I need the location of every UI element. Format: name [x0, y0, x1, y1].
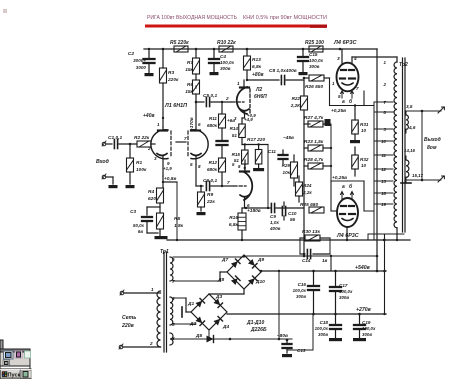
svg-text:+1,9: +1,9: [163, 166, 172, 171]
junction dot rail/C15: [302, 48, 305, 51]
ground below C4: [210, 72, 219, 75]
svg-text:+540в: +540в: [355, 265, 370, 271]
svg-text:6,8к: 6,8к: [252, 64, 262, 70]
wire R4-R5b: [159, 203, 161, 213]
svg-text:Пуск: Пуск: [8, 372, 21, 378]
svg-text:R10 22к: R10 22к: [217, 40, 236, 46]
wire R7-R6: [195, 74, 197, 80]
resistor R28: [308, 163, 323, 169]
label Д9: [257, 257, 264, 263]
svg-text:1,8к: 1,8к: [174, 223, 184, 229]
svg-text:400в: 400в: [269, 226, 281, 231]
label node +1,9: [163, 166, 172, 171]
wire R16: [241, 208, 243, 240]
svg-text:б: б: [349, 98, 353, 105]
svg-text:R15: R15: [232, 152, 241, 157]
wire common line: [167, 239, 410, 241]
svg-text:3: 3: [384, 127, 387, 132]
label +0,25в V5: [332, 175, 347, 181]
label node +0,9: [247, 113, 256, 118]
svg-text:С10: С10: [288, 211, 297, 216]
svg-text:С8 1,0х400в: С8 1,0х400в: [269, 68, 297, 74]
label а V5: [342, 183, 353, 190]
wire V1b cathode to C6: [196, 164, 203, 186]
terminal bar bridge B: [181, 307, 183, 317]
capacitor C10: [282, 202, 285, 220]
svg-text:7: 7: [384, 100, 387, 105]
wire x384 riser: [383, 234, 386, 315]
wire anode bus +170в: [195, 94, 198, 128]
wire +540 rail: [260, 270, 386, 273]
svg-text:3: 3: [337, 56, 340, 62]
wire sec7 to bridge A: [173, 272, 227, 281]
svg-text:14,16: 14,16: [404, 148, 416, 153]
label 2: [149, 341, 153, 346]
label R1 100к: [136, 160, 147, 173]
svg-text:300в: 300в: [220, 66, 231, 71]
label C4 100,0х300в: [220, 54, 234, 71]
capacitor C15: [298, 49, 308, 72]
terminal block (black): [325, 119, 331, 126]
svg-text:R4: R4: [148, 189, 154, 195]
wire R30 stubs: [300, 238, 330, 254]
resistor R22: [301, 96, 308, 110]
svg-text:3: 3: [234, 116, 237, 121]
tube V2 grid (dashed): [232, 101, 244, 103]
label Д1: [187, 301, 194, 307]
wire V5 bottom: [346, 227, 348, 240]
ground below R1: [126, 185, 135, 188]
label Выход 8ом: [424, 137, 441, 151]
tube V3 plate bar: [240, 170, 249, 172]
wire R15 to V3 plate: [244, 164, 246, 171]
label C8 1,0х400в: [269, 68, 297, 74]
svg-text:1в: 1в: [322, 258, 328, 263]
resistor R5: [174, 46, 188, 52]
label 6: [172, 257, 175, 262]
svg-text:15к: 15к: [185, 89, 193, 95]
svg-text:С14: С14: [302, 258, 311, 263]
label C3 50,0х6в: [130, 209, 144, 234]
tube V5 envelope: [337, 198, 358, 227]
svg-text:Л2: Л2: [255, 87, 262, 93]
junction dot input node: [129, 143, 132, 146]
wire V1b anode to C5: [195, 86, 197, 88]
resistor R23: [308, 145, 323, 151]
svg-text:а: а: [342, 99, 345, 105]
label R32 10: [360, 157, 369, 168]
label R7 15к: [185, 60, 193, 73]
svg-text:300в: 300в: [296, 294, 306, 299]
label node +80в: [252, 72, 264, 78]
wire V3 cathode down: [242, 198, 245, 208]
svg-text:Вход: Вход: [96, 159, 110, 165]
wire R11: [221, 101, 223, 141]
resistor R10: [219, 46, 233, 52]
label 8: [172, 336, 175, 341]
triode V1a grid (dashed): [170, 131, 172, 158]
wire PSU bottom link: [288, 314, 313, 350]
pin 6 label V3: [247, 203, 250, 208]
svg-text:12: 12: [381, 167, 386, 172]
label C6 0,1: [203, 178, 217, 184]
svg-text:2: 2: [225, 96, 229, 101]
diode D2: [195, 316, 204, 325]
ground below C18: [329, 338, 342, 341]
label node +6в: [227, 118, 235, 123]
capacitor C9: [271, 204, 274, 213]
resistor R11: [219, 114, 226, 128]
svg-text:+0,25в: +0,25в: [331, 108, 346, 114]
pin 7 label V3: [227, 180, 230, 185]
svg-text:19: 19: [381, 202, 386, 207]
label 4,6: [408, 125, 416, 130]
OPT primary coil: [394, 62, 397, 228]
svg-text:6: 6: [172, 257, 175, 262]
label R26 550: [305, 84, 323, 90]
svg-text:680к: 680к: [207, 123, 218, 128]
wire PSU top rail: [244, 255, 377, 258]
resistor R9: [198, 192, 205, 207]
svg-text:R14: R14: [230, 126, 239, 131]
tube V2 envelope: [237, 87, 247, 114]
label 3,5: [406, 104, 413, 109]
wire input-C1: [106, 143, 112, 145]
svg-text:1: 1: [157, 122, 160, 127]
wire R14-R15-R17 node: [242, 138, 269, 210]
pin 2 label V1a: [147, 146, 151, 151]
grid loop V4: [330, 78, 365, 106]
wire C1-R2: [119, 143, 137, 145]
svg-text:б: б: [349, 183, 353, 190]
PT core: [164, 252, 167, 352]
svg-text:+270в: +270в: [356, 307, 371, 313]
svg-text:7: 7: [227, 180, 230, 185]
pin 7 label V1b: [184, 136, 187, 141]
svg-text:100,0х: 100,0х: [339, 289, 353, 294]
PT primary coil: [157, 291, 161, 347]
wire R23 stub: [304, 147, 331, 149]
wire R29: [293, 155, 295, 186]
svg-text:13: 13: [381, 179, 386, 184]
svg-text:С1 0,1: С1 0,1: [108, 135, 122, 141]
pin 8 label V1b: [198, 164, 201, 169]
capacitor C8: [281, 76, 284, 85]
svg-text:Д8: Д8: [217, 277, 224, 283]
svg-text:11: 11: [381, 153, 386, 158]
label C14 1в: [302, 258, 328, 263]
diode D10: [248, 276, 257, 285]
svg-text:22к: 22к: [206, 199, 215, 205]
resistor R13: [244, 56, 251, 70]
label R16 6,8к: [229, 215, 239, 228]
pin 2 label V2: [225, 96, 229, 101]
svg-text:R28 4,7к: R28 4,7к: [304, 157, 324, 163]
svg-text:4,6: 4,6: [408, 125, 416, 130]
label -80в: [277, 333, 288, 339]
svg-text:R23 1,5к: R23 1,5к: [304, 139, 324, 145]
mains terminal 1: [120, 290, 124, 295]
svg-text:3000+: 3000+: [133, 58, 146, 63]
svg-text:R27 4,7к: R27 4,7к: [304, 115, 324, 121]
label R12 680к: [207, 160, 218, 172]
OPT taps stubs: [374, 102, 393, 204]
wire C8 line: [247, 79, 279, 81]
svg-text:R7: R7: [187, 60, 193, 66]
wire bridge A bottom: [209, 289, 244, 294]
svg-text:1: 1: [151, 287, 154, 292]
wire R5b-ground: [159, 229, 161, 236]
label C17 100,0х300в: [339, 283, 353, 300]
diode D1: [195, 298, 204, 307]
svg-text:300в: 300в: [339, 295, 349, 300]
bridge B outline: [191, 294, 227, 330]
wire V1b grid input: [176, 141, 186, 143]
label C13: [297, 348, 306, 353]
svg-text:R22: R22: [292, 96, 301, 101]
wire R3 branch: [162, 49, 164, 127]
wire output bottom: [406, 179, 441, 182]
label +170в: [189, 117, 195, 131]
resistor R3: [160, 68, 167, 83]
junction dot rail/C4: [213, 48, 216, 51]
capacitor C1: [114, 140, 117, 149]
capacitor C14: [300, 250, 330, 259]
tube V5 electrodes: [340, 206, 355, 221]
label R11 680к: [207, 116, 218, 128]
tube V3 cathode hook: [240, 195, 249, 197]
tube V3 envelope: [244, 172, 252, 200]
label C11: [268, 149, 277, 154]
svg-text:С5 0,1: С5 0,1: [203, 93, 217, 99]
grid loop V5: [331, 181, 364, 211]
svg-text:R6: R6: [187, 82, 193, 88]
wire sec4 to bridge B: [173, 298, 191, 312]
label R29 10к: [282, 163, 291, 175]
svg-text:56: 56: [290, 217, 296, 222]
svg-text:1: 1: [384, 60, 387, 65]
svg-text:18: 18: [381, 191, 386, 196]
resistor R27: [308, 121, 323, 127]
red underline bar: [145, 25, 327, 28]
bridge A outline: [227, 255, 261, 289]
wire R27 stub: [304, 123, 325, 125]
wire OPT bus: [373, 102, 375, 240]
output terminal top: [438, 107, 444, 113]
junction dot rail/R13: [246, 48, 249, 51]
svg-text:300в: 300в: [362, 332, 372, 337]
label tube V4 type: [333, 40, 357, 46]
wire output link: [421, 111, 423, 180]
svg-text:+170в: +170в: [189, 117, 195, 131]
wire R9: [200, 186, 202, 211]
wire output top: [406, 110, 441, 113]
diode D7: [231, 259, 240, 268]
triode V1a anode lead: [158, 127, 167, 131]
resistor R25: [309, 46, 323, 52]
svg-text:Выход: Выход: [424, 137, 441, 143]
svg-text:51: 51: [232, 133, 238, 138]
svg-text:+0,25в: +0,25в: [332, 175, 347, 181]
tube V4 envelope: [337, 63, 359, 92]
svg-text:Д5: Д5: [195, 333, 202, 339]
svg-text:+0,8в: +0,8в: [164, 176, 176, 182]
svg-text:220к: 220к: [167, 77, 179, 83]
svg-text:R1: R1: [136, 160, 142, 166]
svg-text:–45в: –45в: [283, 135, 294, 141]
junction dot R16 top: [245, 207, 247, 209]
triode V1b envelope: [191, 130, 208, 159]
svg-text:6: 6: [198, 122, 201, 127]
label R5 220к: [170, 40, 189, 46]
tube V4 electrodes: [340, 70, 355, 85]
label R23 1,5к: [304, 139, 324, 145]
title caption (red): [147, 15, 327, 21]
wire mains 2: [123, 346, 161, 348]
svg-text:КНИ 0,5% при 90вт МОЩНОСТИ: КНИ 0,5% при 90вт МОЩНОСТИ: [243, 15, 327, 21]
capacitor C2: [144, 48, 155, 73]
resistor R17: [255, 150, 262, 165]
resistor R14: [239, 124, 246, 138]
label Д1-Д10 Д226Б: [246, 320, 267, 333]
label C2 3000+3000: [128, 51, 147, 70]
wire grid bus x304: [303, 80, 305, 254]
svg-text:Сеть: Сеть: [122, 315, 136, 321]
label R27 4,7к: [304, 115, 324, 121]
svg-text:6в: 6в: [138, 229, 143, 234]
svg-text:С16: С16: [298, 282, 307, 287]
capacitor C12: [283, 340, 292, 353]
input terminal 2: [102, 174, 106, 179]
ground below R17: [253, 168, 264, 171]
ground bar common: [155, 236, 168, 239]
svg-text:+4,9: +4,9: [244, 117, 253, 122]
svg-text:С11: С11: [268, 149, 277, 154]
OPT tap numbers: [381, 60, 386, 207]
wire C3 branch: [147, 207, 160, 215]
wire +540 riser: [330, 256, 332, 271]
svg-text:6,8к: 6,8к: [229, 222, 239, 228]
label C18 100,0х300в: [315, 320, 329, 337]
label node +40в: [143, 113, 155, 119]
label Тр1: [160, 249, 169, 255]
label R25b 680: [300, 202, 318, 208]
mains terminal 2: [119, 344, 123, 349]
svg-text:Д4: Д4: [222, 324, 229, 330]
wire V4 grid R26: [303, 77, 330, 80]
svg-text:Д7: Д7: [221, 257, 228, 263]
svg-text:1,0х: 1,0х: [270, 220, 279, 225]
wire R12: [221, 172, 223, 187]
label node +0,8в: [164, 176, 176, 182]
wire R24: [298, 176, 300, 202]
wire OPT top: [396, 57, 398, 62]
wire V4 pin3 to rail: [341, 49, 343, 64]
label R4 620: [148, 189, 156, 202]
junction dot bridge A top: [243, 255, 246, 258]
label R6 15к: [185, 82, 193, 95]
wire +270 rail: [227, 313, 386, 316]
label C15 100,0х300в: [309, 52, 323, 69]
label tube V2 type: [254, 87, 267, 100]
svg-text:6Н6П: 6Н6П: [254, 94, 267, 100]
label 14,16: [404, 148, 416, 153]
junction dot rail/R7: [195, 48, 198, 51]
label Тр2: [399, 62, 408, 68]
wire loops to bus: [364, 106, 374, 212]
svg-text:R9: R9: [207, 192, 213, 198]
svg-text:Д1: Д1: [187, 301, 194, 307]
svg-text:С6 0,1: С6 0,1: [203, 178, 217, 184]
svg-text:R25 100: R25 100: [305, 40, 324, 46]
svg-text:Д226Б: Д226Б: [250, 327, 267, 333]
svg-text:15к: 15к: [185, 67, 193, 73]
desktop speck top-left: [3, 9, 7, 13]
wire sec6 rail: [173, 256, 244, 257]
resistor R25b: [309, 207, 324, 213]
diode D4: [213, 316, 222, 325]
wire V2 anode: [243, 80, 245, 87]
svg-text:С17: С17: [339, 283, 348, 288]
pin 4 label V4: [353, 56, 357, 62]
pin 1 label V1a: [157, 122, 160, 127]
label +270в: [356, 307, 371, 313]
svg-text:220в: 220в: [121, 323, 134, 329]
svg-text:2,2к: 2,2к: [302, 190, 312, 195]
wire right B+ drop: [376, 49, 379, 272]
capacitor C19: [354, 314, 365, 338]
svg-text:100,0х: 100,0х: [293, 288, 307, 293]
triode V1b anode lead: [191, 128, 200, 131]
junction dot +40в: [162, 117, 164, 119]
ground below input: [109, 185, 118, 188]
tube V2 cathode hook: [240, 109, 249, 111]
label R31 10: [360, 122, 369, 133]
pin 5 label V1b: [190, 162, 193, 167]
resistor R26: [309, 75, 324, 81]
wire grid bus to V5 loop: [330, 124, 332, 181]
wire +0,8 feedback drop: [163, 182, 177, 240]
pin 1 label V2: [237, 81, 240, 86]
svg-text:С13: С13: [297, 348, 306, 353]
label Д2: [189, 321, 196, 327]
svg-text:50,0х: 50,0х: [133, 223, 145, 228]
wire R31: [354, 104, 356, 140]
label Д5: [195, 333, 202, 339]
label 7: [172, 279, 175, 284]
wire R2-grid: [151, 143, 155, 145]
wire y234 link: [368, 234, 404, 240]
capacitor C6: [206, 182, 222, 191]
capacitor C18: [330, 314, 341, 338]
wire bridge A right down: [278, 270, 280, 339]
label +540в: [355, 265, 370, 271]
svg-text:С18: С18: [320, 320, 329, 325]
capacitor C7: [217, 141, 228, 158]
svg-text:1: 1: [332, 81, 335, 86]
resistor R1: [127, 158, 134, 172]
label R17 220: [247, 137, 265, 143]
svg-text:100,0х: 100,0х: [315, 326, 329, 331]
label C19 100,0х300в: [362, 320, 376, 337]
svg-text:100,0х: 100,0х: [309, 58, 323, 63]
ground below R9: [197, 212, 206, 215]
capacitor C5: [196, 98, 231, 107]
resistor R29: [291, 162, 298, 178]
svg-text:R26 550: R26 550: [305, 84, 323, 90]
label tube V1 type: [164, 103, 187, 109]
label R5 1,8к: [174, 216, 184, 229]
